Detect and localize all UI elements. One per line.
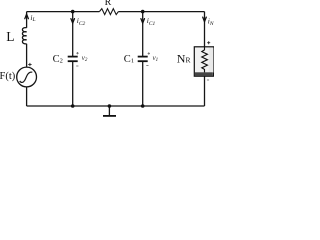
svg-text:C2: C2 xyxy=(53,54,63,65)
svg-text:NR: NR xyxy=(177,51,192,65)
svg-text:iL: iL xyxy=(30,13,35,23)
svg-text:v1: v1 xyxy=(153,55,159,63)
svg-text:iC2: iC2 xyxy=(77,16,86,27)
svg-text:C1: C1 xyxy=(124,54,134,65)
svg-text:R: R xyxy=(105,0,112,8)
svg-text:L: L xyxy=(6,29,14,44)
svg-text:iC1: iC1 xyxy=(147,16,156,27)
svg-text:iN: iN xyxy=(208,16,214,27)
svg-text:v2: v2 xyxy=(82,55,88,63)
svg-text:F(t): F(t) xyxy=(0,71,16,82)
